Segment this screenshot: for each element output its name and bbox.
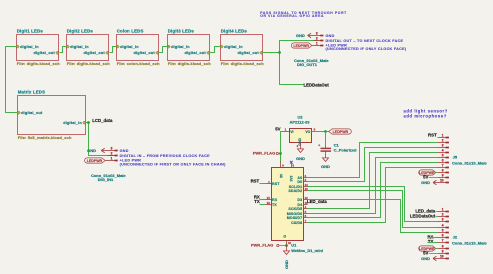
svg-text:WeMos_D1_mini: WeMos_D1_mini [291,248,323,253]
svg-text:digital_in: digital_in [120,45,139,49]
svg-text:5V: 5V [275,127,280,132]
svg-text:LEDDataOut: LEDDataOut [410,214,436,219]
svg-text:TX: TX [428,239,434,244]
svg-text:5: 5 [442,154,444,158]
wire matrix digital_in to DIG_IN1 pin2 [86,123,114,156]
wire SCK/D5 to J5 pin4 [308,153,438,209]
svg-text:GND: GND [296,156,305,161]
svg-text:15: 15 [267,196,271,200]
svg-text:digital_out: digital_out [184,51,206,55]
svg-text:3: 3 [316,32,318,36]
svg-text:C_Polarized: C_Polarized [334,148,357,153]
junction C1 tap [324,130,327,133]
svg-text:CS/D8: CS/D8 [291,221,302,225]
capacitor C1 C_Polarized [318,143,357,158]
svg-text:GND: GND [296,33,305,38]
svg-text:Digit2 LEDs: Digit2 LEDs [67,29,94,34]
connector DIG_IN1 [91,147,126,182]
wire colon to digit3 [159,47,169,53]
svg-text:RST: RST [251,179,260,184]
svg-text:LEDDataOut: LEDDataOut [304,82,330,87]
svg-text:8: 8 [442,245,444,249]
sheet Digit3 LEDs [168,29,212,67]
svg-text:LCD_data: LCD_data [92,118,113,123]
wire digit1 input from matrix [6,47,18,113]
note DIG_IN1 pin functions [120,149,226,167]
power GND at J2 pin10 [421,256,437,261]
svg-text:J5: J5 [453,155,458,160]
svg-text:SCK/D5: SCK/D5 [288,207,302,211]
svg-text:7: 7 [442,239,444,243]
wire digit1 to digit2 [60,47,67,53]
svg-text:AP2112-33: AP2112-33 [289,119,310,124]
svg-text:GND: GND [120,149,129,153]
svg-text:8: 8 [442,169,444,173]
connector J5 [438,134,488,184]
svg-text:LEDPWR: LEDPWR [87,159,103,163]
wire A0 to J5 pin2 [308,143,438,178]
wire 5V U2 to U1 [281,132,283,162]
svg-text:RX: RX [272,198,278,202]
wire RX [260,199,266,201]
svg-text:RST: RST [272,182,280,186]
power GND at DIG_OUT1 pin3 [296,33,314,38]
power GND at J5 pin10 [421,180,437,185]
svg-text:PWR_FLAG: PWR_FLAG [253,151,275,156]
svg-text:TX: TX [254,199,260,204]
power flag PWR_FLAG at U1 ground [251,243,287,248]
svg-text:SDA/D2: SDA/D2 [288,189,302,193]
label RST at U1 [251,179,260,184]
svg-text:digital_out: digital_out [133,51,155,55]
wire digit3 to digit4 [210,47,221,53]
label 5V at J5 pin9 [423,175,437,180]
wire RST [260,183,266,185]
sheet Digit4 LEDs [221,29,265,67]
label LED_data at U1 D4 [307,199,327,204]
svg-text:File: 5x5_matrix.kicad_sch: File: 5x5_matrix.kicad_sch [18,135,72,140]
ground at U1 [286,246,288,251]
svg-text:GND: GND [326,34,335,38]
svg-text:Digit1 LEDs: Digit1 LEDs [17,29,44,34]
wire to C1 [325,132,327,147]
svg-text:Colon LEDS: Colon LEDS [117,29,144,34]
sheet Colon LEDS [117,29,161,67]
label RST at J5 pin1 [428,132,437,137]
svg-text:MOSI/D7: MOSI/D7 [287,216,302,220]
svg-text:2: 2 [111,152,113,156]
svg-text:digital_out: digital_out [237,51,259,55]
svg-text:16: 16 [267,201,271,205]
ground at U2 [298,149,304,153]
svg-text:digital_out: digital_out [83,51,105,55]
sheet Digit2 LEDs [67,29,111,67]
svg-text:OR VIA GENERAL GPIO AREA: OR VIA GENERAL GPIO AREA [260,14,324,18]
label 5V at U2 input [275,127,280,132]
power flag LEDPWR at DIG_OUT1 pin1 [291,43,313,48]
svg-text:GND: GND [421,256,430,261]
svg-text:1: 1 [442,134,444,138]
svg-text:GND: GND [321,164,330,169]
sheet Matrix LEDS [18,90,86,141]
connector DIG_OUT1 [294,32,329,67]
wire CS/D8 to J5 pin7 [308,168,438,223]
svg-text:1: 1 [316,42,318,46]
wire SCL/D1 to J2 pin3 [308,187,438,222]
svg-text:TX: TX [272,203,277,207]
svg-text:Matrix LEDS: Matrix LEDS [18,90,46,95]
wire TX [260,204,266,206]
svg-text:digital_in: digital_in [20,45,39,49]
label RX at J2 pin6 [427,234,437,239]
svg-text:digital_out: digital_out [33,51,55,55]
svg-text:7: 7 [442,164,444,168]
svg-text:5: 5 [442,229,444,233]
svg-text:digital_in: digital_in [70,45,89,49]
svg-text:digital_in: digital_in [63,121,82,125]
wire MISO/D6 to J5 pin5 [308,158,438,214]
svg-text:LEDPWR: LEDPWR [293,44,309,48]
ground at C1 [323,158,329,162]
svg-text:1: 1 [442,208,444,212]
svg-text:(UNCONNECTED IF ONLY CLOCK FAC: (UNCONNECTED IF ONLY CLOCK FACE) [326,47,407,51]
note DIG_OUT1 pin functions [326,34,407,51]
svg-text:3: 3 [442,218,444,222]
svg-text:G: G [283,235,287,238]
label RX at U1 [254,194,260,199]
regulator U2 AP2112-3.3 [282,114,317,148]
label LEDDataOut at J2 pin2 [410,214,438,219]
svg-text:GND: GND [421,180,430,185]
svg-text:DIGITAL IN – FROM PREVIOUS CLO: DIGITAL IN – FROM PREVIOUS CLOCK FACE [120,154,210,158]
svg-text:2: 2 [442,213,444,217]
svg-text:VI: VI [290,130,293,134]
no-connect at U1 3V3 [290,161,293,164]
sheet Digit1 LEDs [17,29,61,67]
svg-text:Digit3 LEDs: Digit3 LEDs [168,29,195,34]
wire D3 to J2 pin5 [308,200,438,233]
label LED_data at J2 pin1 [415,209,437,214]
svg-text:J2: J2 [453,235,458,240]
svg-text:10: 10 [440,255,444,259]
connector J2 [438,208,488,260]
power flag LEDPWR at U2 output [329,129,352,134]
svg-text:digital_out: digital_out [21,111,43,115]
power GND at DIG_IN1 pin3 [87,148,107,153]
svg-text:10: 10 [440,179,444,183]
svg-text:3V3: 3V3 [290,175,294,181]
svg-text:GND: GND [284,260,289,269]
junction U1 ground [285,244,288,247]
svg-text:PWR_FLAG: PWR_FLAG [251,243,273,248]
svg-text:2: 2 [442,139,444,143]
junction 5V PWR_FLAG [279,152,282,155]
svg-text:GND: GND [87,148,96,153]
wire digit2 to colon [110,47,117,53]
svg-text:4: 4 [442,149,444,153]
power flag LEDPWR at J2 pin8 [419,246,438,251]
wire D0 to J5 pin3 [308,148,438,182]
svg-text:2: 2 [316,37,318,41]
svg-text:LEDPWR: LEDPWR [333,130,349,134]
svg-text:3: 3 [111,147,113,151]
svg-text:digital_in: digital_in [224,45,243,49]
power flag PWR_FLAG on 5V [253,151,281,156]
svg-text:D3: D3 [297,198,302,202]
svg-text:add microphone?: add microphone? [404,113,447,118]
svg-text:DIG_IN1: DIG_IN1 [98,177,114,182]
wire U2 out to LEDPWR [312,131,329,133]
junction LCD_data [87,121,90,124]
svg-text:VO: VO [305,130,310,134]
svg-text:digital_in: digital_in [171,45,190,49]
svg-text:6: 6 [442,159,444,163]
svg-text:Conn_01x10_Male: Conn_01x10_Male [452,240,487,245]
label 5V at J2 pin9 [423,251,437,256]
svg-text:6: 6 [442,234,444,238]
svg-text:DIG_OUT1: DIG_OUT1 [297,62,318,67]
svg-text:File: digits.kicad_sch: File: digits.kicad_sch [67,61,111,66]
svg-text:File: digits.kicad_sch: File: digits.kicad_sch [168,61,212,66]
svg-text:3: 3 [442,144,444,148]
power flag LEDPWR at J5 pin8 [419,170,438,175]
svg-text:1: 1 [111,157,113,161]
note add sensors [404,109,448,119]
label TX at J2 pin7 [428,239,438,244]
note pass signal [260,11,347,18]
label LEDDataOut [304,82,330,87]
svg-text:DIGITAL OUT – TO NEXT CLOCK FA: DIGITAL OUT – TO NEXT CLOCK FACE [326,39,404,43]
wire SDA/D2 to J2 pin4 [308,191,438,228]
svg-text:RST: RST [428,132,437,137]
svg-text:D0: D0 [297,180,302,184]
svg-text:File: colon.kicad_sch: File: colon.kicad_sch [117,61,160,66]
svg-text:File: digits.kicad_sch: File: digits.kicad_sch [221,61,265,66]
label TX at U1 [254,199,260,204]
svg-text:Digit4 LEDs: Digit4 LEDs [221,29,248,34]
wire digit4 out to DIG_OUT1 pin2 and LEDDataOut [263,41,319,53]
svg-text:9: 9 [442,174,444,178]
junction digit4 out [278,51,281,54]
svg-text:9: 9 [442,250,444,254]
svg-text:Conn_01x10_Male: Conn_01x10_Male [452,160,487,165]
svg-text:File: digits.kicad_sch: File: digits.kicad_sch [17,61,61,66]
mcu U1 WeMos_D1_mini [266,161,323,253]
svg-text:(UNCONNECTED IF FIRST OR ONLY: (UNCONNECTED IF FIRST OR ONLY FACE IN CH… [120,163,226,167]
wire MOSI/D7 to J5 pin6 [308,163,438,218]
power flag LEDPWR at DIG_IN1 pin1 [85,158,108,163]
svg-text:4: 4 [442,224,444,228]
label LCD_data [92,118,113,123]
